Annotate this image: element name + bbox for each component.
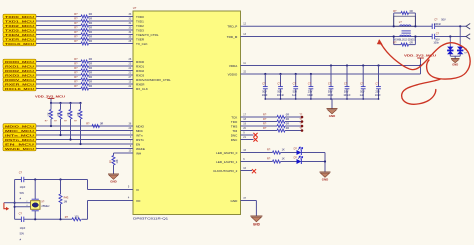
wire resistor to pin RXD0 — [89, 61, 134, 63]
svg-text:25V: 25V — [375, 89, 380, 93]
wire left ground rail — [14, 180, 16, 220]
resistor R? 0R on RXD0_MCU — [74, 57, 92, 63]
net label EN_MCU — [3, 142, 36, 147]
wire RXD2_MCU to series resistor — [36, 70, 81, 72]
svg-text:L?: L? — [399, 20, 402, 24]
svg-text:4: 4 — [26, 205, 27, 207]
svg-text:0R: 0R — [89, 57, 92, 61]
junction choke stub (415.4,26.3) — [414, 25, 416, 27]
svg-text:C?: C? — [19, 212, 23, 216]
ground symbol below INH resistor — [108, 174, 119, 184]
wire resistor to pin TX_CLK — [89, 43, 134, 45]
wire LED to rail D? LED_0 — [301, 152, 325, 154]
pin RXD2 (24) — [129, 67, 145, 73]
pin TXD1 (32) — [129, 17, 145, 23]
svg-text:0R: 0R — [89, 26, 92, 30]
junction choke stub (393.7,26.3) — [393, 25, 395, 27]
pin INTn (2) — [130, 131, 143, 137]
test point T? row 18 — [299, 118, 303, 123]
op-amp-style IC body U? DP83TC811R-Q1 — [133, 11, 241, 215]
red annotation arrow and circles — [377, 39, 470, 104]
wire TRD_P — [241, 25, 467, 27]
svg-text:EN_MCU: EN_MCU — [5, 142, 34, 146]
red port arrow bottom-left — [4, 203, 9, 211]
net label RXD0_MCU — [3, 59, 36, 64]
svg-text:R?: R? — [74, 71, 78, 75]
svg-text:C?: C? — [293, 81, 297, 85]
resistor R? 10K pull-up INTn — [54, 103, 62, 123]
wire to red port — [4, 202, 15, 204]
svg-text:50V: 50V — [20, 233, 25, 236]
svg-text:C?: C? — [328, 81, 332, 85]
net label RXD1_MCU — [3, 64, 36, 69]
pin GND (37) right side — [231, 197, 247, 203]
capacitor C? 1uF decoupling at x=295.7 — [292, 73, 298, 99]
pin WAKE (8) — [130, 145, 145, 151]
svg-text:0R: 0R — [286, 126, 289, 130]
svg-text:R?: R? — [74, 21, 78, 25]
wire rail to ground — [331, 99, 333, 109]
svg-text:TXD0_MCU: TXD0_MCU — [5, 15, 34, 19]
svg-text:0R: 0R — [286, 122, 289, 126]
junction R43 top — [59, 178, 61, 180]
svg-text:R?: R? — [74, 35, 78, 39]
svg-text:CLKOUT/GPIO_2: CLKOUT/GPIO_2 — [213, 169, 238, 173]
pin TXD2 (31) — [129, 22, 145, 28]
svg-text:TXD1: TXD1 — [136, 19, 144, 23]
net label TXD1_MCU — [3, 19, 36, 24]
svg-text:R?: R? — [267, 157, 271, 161]
svg-text:50V: 50V — [277, 89, 282, 93]
junction TVS B on TRD_P — [459, 25, 461, 27]
wire WAKE_MCU to pin WAKE — [36, 148, 133, 150]
no-connect X CLKOUT/GPIO_2 — [241, 169, 257, 173]
svg-text:RXD0_MCU: RXD0_MCU — [5, 60, 34, 64]
pin VDDA (11) right side — [229, 62, 247, 68]
svg-text:10K: 10K — [78, 112, 80, 117]
wire resistor to pin RX_CLK — [89, 88, 134, 90]
TVS designator D? — [464, 49, 468, 55]
capacitor C? 10nF decoupling at x=331.0 — [327, 64, 333, 99]
svg-text:R?: R? — [74, 12, 78, 16]
connector entry TRD_M — [466, 34, 470, 40]
svg-text:TX_CLK: TX_CLK — [136, 42, 148, 46]
svg-text:GND: GND — [322, 178, 328, 182]
svg-text:WAKE: WAKE — [136, 147, 145, 151]
svg-text:0R: 0R — [286, 113, 289, 117]
pin LED_1/GPIO_1 (6) right side — [216, 158, 245, 164]
svg-text:TXD3_MCU: TXD3_MCU — [5, 28, 34, 32]
TVS diode D? on TRD_M — [447, 37, 453, 55]
wire resistor to LED D? LED_0 — [281, 152, 297, 154]
svg-text:TXCLK_MCU: TXCLK_MCU — [5, 42, 34, 46]
wire MDIO_MCU to pin MDIO — [36, 125, 133, 127]
svg-text:MDIO_MCU: MDIO_MCU — [5, 124, 34, 128]
wire TRD_M — [241, 36, 467, 38]
pin TXD3 (30) — [129, 26, 145, 32]
resistor R? 0R on RXDV_MCU — [74, 75, 92, 81]
svg-text:100nF: 100nF — [277, 93, 285, 97]
capacitor C? 100nF decoupling at x=347.0 — [343, 64, 351, 99]
LED D? LED_1 — [294, 155, 303, 164]
svg-text:VDD_3V3_MCU: VDD_3V3_MCU — [35, 94, 66, 98]
pin RXD0 (26) — [129, 58, 145, 64]
svg-text:1uF: 1uF — [292, 93, 297, 97]
net label TXEN_MCU — [3, 32, 36, 37]
resistor R? 0R JTAG row 19 — [263, 122, 289, 128]
svg-text:10uF: 10uF — [307, 93, 313, 97]
capacitor C? 100nF decoupling at x=280.5 — [277, 73, 285, 99]
svg-text:C?: C? — [344, 81, 348, 85]
svg-text:RSTn_MCU: RSTn_MCU — [5, 138, 34, 142]
resistor R? 0R on RXER_MCU — [74, 80, 92, 86]
svg-text:TXER: TXER — [136, 37, 145, 41]
resistor R? 0R on RXCLK_MCU — [74, 84, 92, 90]
no-connect X pin 9 — [241, 133, 258, 137]
wire RXDV_MCU to series resistor — [36, 79, 81, 81]
svg-text:R?: R? — [263, 113, 267, 117]
svg-text:10K: 10K — [68, 112, 70, 117]
capacitor C? 10uF decoupling at x=310.9 — [307, 73, 313, 99]
svg-text:GND: GND — [452, 62, 458, 66]
pin RXDV/CRSDV/RX_CTRL (27) — [129, 76, 171, 82]
svg-text:TXEN_MCU: TXEN_MCU — [5, 33, 34, 37]
svg-text:GND: GND — [329, 114, 335, 118]
svg-text:C?: C? — [277, 81, 281, 85]
choke part number — [393, 40, 416, 42]
wire TXD2_MCU to series resistor — [36, 25, 81, 27]
svg-text:R?: R? — [74, 39, 78, 43]
wire INTn_MCU to pin INTn — [36, 134, 133, 136]
wire TXER_MCU to series resistor — [36, 38, 81, 40]
wire resistor to pin RXD1 — [89, 65, 134, 67]
svg-text:0R: 0R — [89, 66, 92, 70]
wire decoupling ground rail — [264, 98, 379, 100]
svg-text:1K: 1K — [282, 157, 285, 161]
net label TXD2_MCU — [3, 23, 36, 28]
wire RXCLK_MCU to series resistor — [36, 88, 81, 90]
pin XO (4) — [128, 197, 141, 203]
svg-text:DNC: DNC — [231, 138, 238, 142]
pin TXD0 (33) — [129, 13, 145, 19]
junction on rail x=51 — [50, 102, 52, 104]
svg-text:10nF: 10nF — [327, 93, 333, 97]
svg-text:100n: 100n — [433, 41, 439, 45]
svg-text:0R: 0R — [410, 10, 413, 13]
wire resistor to pin RXER — [89, 83, 134, 85]
svg-text:50V: 50V — [441, 18, 446, 22]
svg-text:VDDIO: VDDIO — [228, 72, 238, 76]
svg-text:TXD2: TXD2 — [136, 24, 144, 28]
svg-text:50V: 50V — [328, 89, 333, 93]
svg-text:INH: INH — [136, 151, 141, 155]
wire LED row D? LED_1 — [241, 161, 273, 163]
svg-text:100nF: 100nF — [434, 22, 442, 26]
svg-text:0R: 0R — [89, 62, 92, 66]
svg-text:RXD3: RXD3 — [136, 73, 144, 77]
svg-text:RXER: RXER — [136, 82, 145, 86]
wire EN_MCU to pin EN — [36, 143, 133, 145]
pin EN (7) — [130, 140, 140, 146]
svg-text:C?: C? — [434, 18, 438, 22]
net label TXCLK_MCU — [3, 41, 36, 46]
wire resistor to pin TXD0 — [89, 16, 134, 18]
pin RSTn (3) — [130, 136, 144, 142]
svg-text:TMS: TMS — [231, 124, 237, 128]
wire pull-up to EN — [79, 119, 81, 145]
resistor R? 0R bypass over choke top — [393, 10, 415, 26]
IC designator U? — [133, 6, 137, 10]
pin TRD_P (12) right side — [227, 23, 246, 29]
wire VDDA rail — [241, 65, 421, 67]
wire RXD1_MCU to series resistor — [36, 65, 81, 67]
wire pull-up to RSTn — [69, 119, 71, 141]
junction on rail x=70.5 — [69, 102, 71, 104]
net label RXDV_MCU — [3, 77, 36, 82]
svg-text:R?: R? — [74, 84, 78, 88]
svg-text:R?: R? — [263, 122, 267, 126]
svg-text:0R: 0R — [410, 42, 413, 45]
svg-text:C?: C? — [360, 81, 364, 85]
wire resistor to pin RXD2 — [89, 70, 134, 72]
svg-text:RSTn: RSTn — [136, 138, 144, 142]
svg-text:U?: U? — [133, 6, 137, 10]
svg-text:TXD3: TXD3 — [136, 28, 144, 32]
svg-text:0R: 0R — [89, 12, 92, 16]
IC part number DP83TC811R-Q1 — [133, 217, 168, 221]
capacitor C? 100nF series on TRD_M — [432, 31, 440, 44]
svg-text:TXEN/TX_CTRL: TXEN/TX_CTRL — [136, 33, 159, 37]
net label RXD3_MCU — [3, 73, 36, 78]
resistor R? 10K pull-down on INH — [110, 153, 119, 174]
net label RXCLK_MCU — [3, 86, 36, 91]
wire TXCLK_MCU to series resistor — [36, 43, 81, 45]
wire JTAG row 19 — [241, 125, 278, 127]
svg-text:MDC: MDC — [136, 129, 144, 133]
svg-text:10pF: 10pF — [20, 227, 26, 230]
svg-text:10uF: 10uF — [375, 93, 381, 97]
svg-text:TDI: TDI — [232, 129, 237, 133]
svg-text:D?: D? — [294, 155, 298, 159]
wire resistor to pin TXD3 — [89, 29, 134, 31]
pin VDDIO (32) right side — [228, 70, 247, 76]
svg-text:10nF: 10nF — [262, 93, 268, 97]
svg-text:XO: XO — [136, 199, 141, 203]
svg-text:INTn: INTn — [136, 133, 143, 137]
pin TDI (20) right side — [232, 127, 246, 133]
net label TXD0_MCU — [3, 14, 36, 19]
svg-text:D?: D? — [294, 146, 298, 150]
svg-text:TRD_P: TRD_P — [227, 25, 237, 29]
pin INH (10) — [129, 149, 142, 155]
wire to test point row 20 — [285, 130, 302, 132]
resistor R? 0R JTAG row 18 — [263, 117, 289, 123]
resistor R? 10K pull-up RSTn — [64, 103, 72, 123]
net label RXD2_MCU — [3, 68, 36, 73]
svg-text:10K: 10K — [58, 112, 60, 117]
pin TDO (18) right side — [231, 118, 247, 124]
choke winding on TRD_M — [400, 35, 411, 36]
capacitor C? 10pF bottom — [19, 212, 26, 242]
svg-text:0R: 0R — [89, 84, 92, 88]
svg-text:0R: 0R — [100, 121, 103, 125]
resistor R? 0R JTAG row 17 — [263, 113, 289, 119]
wire RXD0_MCU to series resistor — [36, 61, 81, 63]
svg-text:R?: R? — [74, 62, 78, 66]
pin TMS (19) right side — [231, 122, 247, 128]
svg-text:10K: 10K — [49, 112, 51, 117]
wire TVS common to ground — [450, 54, 460, 59]
connector entry TRD_P — [466, 24, 470, 30]
svg-text:50V: 50V — [293, 89, 298, 93]
capacitor C? 100nF series on TRD_P — [432, 18, 446, 29]
pin TRD_M (13) right side — [227, 33, 247, 39]
wire resistor to pin RXDV/CRSDV/RX_CTRL — [89, 79, 134, 81]
svg-text:10K: 10K — [117, 159, 119, 164]
svg-text:C?: C? — [262, 81, 266, 85]
svg-text:TCK: TCK — [231, 115, 237, 119]
resistor R? 1K D? LED_0 — [267, 148, 285, 154]
resistor R? 0R bypass under choke bottom — [393, 37, 415, 47]
junction crystal bottom — [34, 218, 36, 220]
choke core bars — [402, 31, 411, 33]
resistor R? 0R on TXCLK_MCU — [74, 39, 92, 45]
svg-text:0R: 0R — [89, 30, 92, 34]
junction crystal top — [34, 178, 36, 180]
ground symbol LEDs — [320, 172, 331, 182]
LED D? LED_0 — [294, 146, 303, 155]
resistor R? 0R on TXER_MCU — [74, 35, 92, 41]
svg-text:R?: R? — [74, 57, 78, 61]
pin RXD1 (25) — [129, 62, 145, 68]
svg-text:R?: R? — [74, 17, 78, 21]
resistor R? 0R on RXD1_MCU — [74, 62, 92, 68]
svg-text:R?: R? — [267, 148, 271, 152]
junction on rail x=80.5 — [79, 102, 81, 104]
svg-text:50V: 50V — [360, 89, 365, 93]
svg-text:R?: R? — [86, 121, 90, 125]
net label TXER_MCU — [3, 37, 36, 42]
svg-text:EN: EN — [136, 142, 140, 146]
crystal X? 25MHz — [31, 180, 51, 220]
wire VDDIO rail — [241, 58, 422, 74]
svg-text:DNC: DNC — [231, 133, 238, 137]
resistor R? 0R on TXEN_MCU — [74, 30, 92, 36]
wire JTAG row 18 — [241, 121, 278, 123]
wire TXD0_MCU to series resistor — [36, 16, 81, 18]
wire RSTn_MCU to pin RSTn — [36, 139, 133, 141]
svg-text:RXD2: RXD2 — [136, 69, 144, 73]
svg-text:2: 2 — [26, 201, 27, 203]
svg-text:R?: R? — [74, 75, 78, 79]
capacitor C? 10nF decoupling at x=265.3 — [262, 73, 268, 99]
resistor R? 10K pull-up EN — [74, 103, 82, 123]
svg-text:C?: C? — [308, 81, 312, 85]
junction R43 bottom — [59, 218, 61, 220]
capacitor C? 10uF decoupling at x=378.5 — [375, 64, 381, 99]
test point T? row 20 — [299, 127, 303, 132]
wire RXER_MCU to series resistor — [36, 83, 81, 85]
wire JTAG row 20 — [241, 130, 278, 132]
svg-text:0R: 0R — [89, 75, 92, 79]
svg-text:RXDV/CRSDV/RX_CTRL: RXDV/CRSDV/RX_CTRL — [136, 78, 171, 82]
capacitor C? 1uF decoupling at x=363.2 — [360, 64, 366, 99]
wire pull-up rail — [51, 102, 81, 104]
svg-text:R?: R? — [74, 26, 78, 30]
wire resistor to pin TXD2 — [89, 25, 134, 27]
svg-text:1M: 1M — [64, 200, 68, 204]
svg-text:TRD_M: TRD_M — [227, 35, 238, 39]
svg-text:RXD1: RXD1 — [136, 64, 144, 68]
svg-text:RXD0: RXD0 — [136, 60, 144, 64]
net label INTn_MCU — [3, 133, 36, 138]
svg-text:50V: 50V — [20, 192, 25, 195]
svg-text:C?: C? — [375, 81, 379, 85]
resistor R? 0R on RXD3_MCU — [74, 71, 92, 77]
resistor R? 0R on TXD1_MCU — [74, 17, 92, 23]
no-connect X pin 21 — [241, 137, 258, 141]
wire crystal case pins to ground rail — [15, 201, 31, 207]
common mode choke L? box — [394, 16, 416, 26]
wire TXD3_MCU to series resistor — [36, 29, 81, 31]
ground symbol IC GND — [250, 216, 262, 226]
choke winding on TRD_P — [400, 25, 411, 26]
ground symbol decoupling rail — [327, 109, 338, 119]
power port VDD_3V3_MCU (right) — [404, 53, 437, 58]
svg-text:X?: X? — [41, 199, 45, 203]
pin TXEN/TX_CTRL (34) — [129, 31, 159, 37]
wire XI top rail — [15, 180, 133, 190]
svg-text:1uF: 1uF — [360, 93, 365, 97]
svg-text:0R: 0R — [89, 71, 92, 75]
svg-text:RXD2_MCU: RXD2_MCU — [5, 69, 34, 73]
svg-text:25V: 25V — [308, 89, 313, 93]
net label RXER_MCU — [3, 82, 36, 87]
wire to test point row 17 — [285, 116, 302, 118]
svg-text:MDIO: MDIO — [136, 124, 145, 128]
resistor R? 0R on TXD3_MCU — [74, 26, 92, 32]
svg-text:GND: GND — [110, 180, 116, 184]
ground symbol TVS — [451, 59, 460, 67]
test point T? row 17 — [299, 114, 303, 119]
resistor R? 1K D? LED_1 — [267, 157, 285, 163]
svg-text:R?: R? — [263, 117, 267, 121]
wire resistor to pin TXEN/TX_CTRL — [89, 34, 134, 36]
svg-text:TXD1_MCU: TXD1_MCU — [5, 19, 34, 23]
wire LED row D? LED_0 — [241, 152, 273, 154]
power port VDD_3V3_MCU (left) — [35, 94, 66, 103]
wire resistor to pin RXD3 — [89, 74, 134, 76]
resistor R? 0R on TXD0_MCU — [74, 12, 92, 18]
wire TXD1_MCU to series resistor — [36, 20, 81, 22]
pin MDIO (36) — [129, 122, 145, 128]
pin LED_0/GPIO_0 (33) right side — [216, 149, 246, 155]
pin RX_CLK (22) — [129, 85, 148, 91]
resistor R? 100 series XO — [65, 216, 81, 221]
svg-text:R?: R? — [74, 30, 78, 34]
svg-text:TXD0: TXD0 — [136, 15, 144, 19]
wire pull-up to INTn — [59, 119, 61, 136]
svg-text:TXD2_MCU: TXD2_MCU — [5, 24, 34, 28]
pin XI (5) — [128, 186, 139, 192]
resistor R43 1M — [59, 180, 69, 220]
svg-text:INTn_MCU: INTn_MCU — [5, 133, 34, 137]
svg-text:0R: 0R — [89, 39, 92, 43]
svg-text:25MHz: 25MHz — [41, 204, 50, 208]
pin TX_CLK (28) — [129, 40, 148, 46]
wire INH — [114, 152, 134, 154]
svg-text:RXD1_MCU: RXD1_MCU — [5, 64, 34, 68]
